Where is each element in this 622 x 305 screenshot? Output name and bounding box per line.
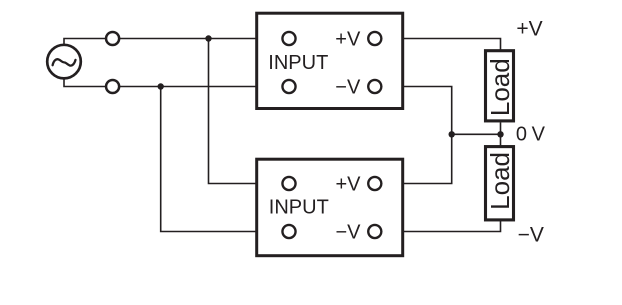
lower unit +V output pin: [368, 177, 381, 190]
wire: terminal T1 to upper unit input pin: [113, 38, 289, 40]
terminal T1: [106, 32, 119, 45]
upper unit input pin bottom: [282, 80, 295, 93]
svg-text:Load: Load: [485, 152, 515, 210]
wire: upper unit +V to Load1 top: [375, 39, 501, 51]
svg-text:−V: −V: [518, 224, 544, 247]
lower power supply unit box: [257, 159, 403, 256]
upper power supply unit box: [257, 13, 403, 108]
AC source: [47, 45, 81, 79]
wire: node B to lower unit input pin: [161, 87, 289, 232]
node A junction dot: [205, 35, 211, 41]
svg-text:−V: −V: [335, 221, 361, 243]
wire: AC source top to terminal T1: [64, 39, 113, 62]
svg-text:−V: −V: [335, 76, 361, 98]
wire: 0V rail: [452, 133, 501, 135]
terminal T2: [106, 80, 119, 93]
wire: lower unit -V to Load2 bottom: [375, 220, 501, 232]
wire: upper unit -V to lower unit +V via 0V node: [375, 87, 452, 184]
lower unit input pin top: [282, 177, 295, 190]
svg-text:+V: +V: [516, 18, 542, 41]
upper unit input pin top: [282, 32, 295, 45]
node B junction dot: [158, 83, 164, 89]
upper unit -V output pin: [368, 80, 381, 93]
wire: terminal T2 to upper unit input pin: [113, 86, 289, 88]
lower unit input pin bottom: [282, 225, 295, 238]
wire: Load1 bottom to Load2 top through 0V rail: [500, 123, 502, 147]
svg-text:INPUT: INPUT: [268, 52, 328, 74]
svg-text:0 V: 0 V: [516, 124, 546, 146]
Load1 resistor box: [486, 51, 514, 121]
svg-text:+V: +V: [335, 173, 361, 195]
lower unit -V output pin: [368, 225, 381, 238]
svg-text:+V: +V: [335, 28, 361, 50]
node 0V junction dot left: [449, 131, 455, 137]
Load2 resistor box: [486, 147, 514, 220]
node 0V junction dot right: [497, 131, 503, 137]
svg-text:INPUT: INPUT: [269, 197, 329, 219]
svg-text:Load: Load: [485, 58, 515, 116]
upper unit +V output pin: [368, 32, 381, 45]
wire: AC source bottom to terminal T2: [64, 62, 113, 87]
wire: node A to lower unit input pin: [209, 39, 290, 184]
